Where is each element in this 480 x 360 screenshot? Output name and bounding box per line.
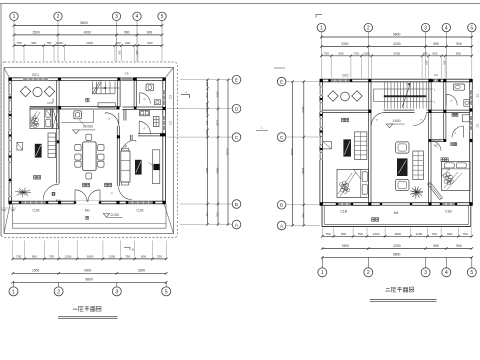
right column connector lines left plan [180,79,232,81]
door mark bedroom [52,192,55,195]
wall column squares left plan [9,78,12,81]
svg-text:-0.020: -0.020 [110,213,120,217]
svg-text:1200: 1200 [415,232,422,236]
axis bubble A right plan [277,221,286,230]
side table bedroom [17,142,23,150]
overall dim line left column right plan [292,82,294,226]
svg-text:950: 950 [124,30,130,34]
sink leader line [79,120,86,127]
svg-text:750: 750 [354,51,359,55]
svg-text:4800: 4800 [205,168,208,174]
right rooms wall H [431,138,446,140]
mark above E right plan [274,67,285,69]
svg-text:750: 750 [125,254,130,258]
dim row3 drop lines top-left [23,46,25,61]
dim line 9800 top-left plan [14,25,162,27]
svg-text:5: 5 [470,270,473,276]
svg-text:9800: 9800 [393,253,401,257]
room label dining [83,183,86,187]
bed scribble left bedroom [340,183,344,187]
axis bubble D left plan [232,104,241,113]
dim line 9800 top-right plan [321,36,471,38]
bottom extension lines right plan [321,228,323,237]
svg-text:750: 750 [325,232,330,236]
axis extension lines top-right plan [320,32,322,56]
axis bubble 5 bottom-left plan [165,282,167,287]
interior wall H3 lower bath bottom [138,133,163,135]
roof hip diagonal top-right [164,68,173,80]
window C3 top wall right plan [432,79,440,82]
outer wall right right plan [469,79,471,205]
svg-text:T: T [434,102,436,105]
bottom extension lines left plan [12,241,14,259]
outer wall right left plan [162,78,164,204]
svg-text:900: 900 [125,41,130,45]
svg-text:4800: 4800 [301,168,305,175]
svg-text:750: 750 [301,213,305,218]
svg-text:950: 950 [433,244,439,248]
axis bubble C left plan [232,133,241,142]
svg-text:900: 900 [341,232,346,236]
eave dashed outline left plan [1,62,177,238]
svg-text:900: 900 [31,41,36,45]
axis bubble 2 top-right plan [364,23,372,31]
interior wall V5 living/dining [116,126,118,186]
svg-text:1: 1 [320,25,323,31]
terrace tick label [86,216,89,219]
axis bubble 3 bottom-left plan [116,282,118,287]
interior wall V3 bath divider [133,80,135,107]
axis bubble 1 top-right plan [317,23,325,31]
svg-text:1: 1 [434,88,436,91]
axis bubble 4 bottom-right plan [445,257,447,268]
svg-text:1200: 1200 [363,51,370,55]
svg-text:900: 900 [32,254,37,258]
outer wall top left plan [9,77,166,79]
mark mid left [256,130,268,132]
svg-text:9100: 9100 [226,149,230,156]
svg-text:C: C [235,135,239,141]
svg-text:C3: C3 [125,72,129,76]
title first floor plan [73,308,78,310]
svg-text:1: 1 [13,14,16,20]
sheet frame top line [0,3,480,5]
svg-text:3: 3 [115,14,118,20]
svg-text:M1: M1 [85,209,90,213]
svg-text:950: 950 [433,42,439,46]
svg-text:1500: 1500 [32,269,40,273]
room label kitchen [86,98,89,102]
toilet upper bath [146,84,154,91]
balcony inner rail [323,205,325,224]
stairwell wall left [368,82,370,110]
door V1 bedroom [43,184,59,200]
window C3 top wall [121,78,133,81]
svg-text:1200: 1200 [64,254,71,258]
bed scribble right bedroom [443,174,447,178]
svg-text:S: S [107,117,111,120]
axis bubble 3 top-right plan [421,23,429,31]
door opening M1 bottom wall [75,201,101,204]
axis bubble 5 top-left plan [158,12,166,20]
svg-text:1800: 1800 [394,232,401,236]
hall door arc S1 [105,113,118,126]
svg-text:4: 4 [445,270,448,276]
svg-text:4200: 4200 [84,269,92,273]
axis bubble 2 bottom-left plan [58,282,60,287]
svg-text:1200: 1200 [108,254,115,258]
svg-text:600: 600 [205,110,208,115]
interior wall stub below bath [129,135,131,141]
bedroom right wall V [428,113,430,203]
window GC1 top wall [23,78,48,81]
svg-text:120: 120 [11,209,16,212]
window C2 right wall lower right plan [469,116,472,130]
segment dim line left column right plan [303,82,305,226]
entrance steps [13,223,167,225]
svg-text:9100: 9100 [290,149,294,156]
kitchen counter [62,122,94,124]
svg-text:2: 2 [57,14,60,20]
hall wall below stairs seg1 [323,109,372,111]
title underline second floor [370,299,437,301]
svg-text:2930: 2930 [393,51,400,55]
bottom dim row2 left plan [13,272,167,274]
svg-text:900: 900 [205,121,208,126]
corner chair 1 right plan [328,91,338,101]
svg-text:4800: 4800 [215,167,219,174]
svg-text:750: 750 [16,254,21,258]
interior squares right plan [368,110,371,113]
axis bubble 5 bottom-right plan [471,257,473,268]
washer lower bath [153,116,159,126]
window end squares bottom [19,201,21,203]
stairwell wall right [428,82,430,110]
room label closet [451,143,454,146]
bottom dim row3 right plan [322,256,472,258]
window C1A bottom-left [20,201,47,204]
svg-text:900: 900 [432,51,437,55]
svg-text:D: D [235,107,239,113]
svg-text:900: 900 [456,51,461,55]
svg-text:4: 4 [445,25,448,31]
svg-text:300: 300 [442,60,446,65]
svg-text:5: 5 [470,25,473,31]
outer wall left left plan [8,78,10,204]
svg-text:S: S [454,132,458,135]
svg-text:750: 750 [463,232,468,236]
axis bubble 5 top-right plan [468,23,476,31]
bath door arc right plan [446,94,457,105]
svg-text:C3: C3 [434,73,438,77]
door opening M4 bottom wall right plan [381,202,412,205]
svg-text:200: 200 [423,51,428,55]
svg-text:4200: 4200 [393,42,401,46]
window C2 right wall upper right plan [469,90,472,105]
svg-text:900: 900 [456,244,462,248]
staircase left plan [91,82,93,94]
tv cabinet living [152,150,159,184]
washbasin lower bath [139,111,149,116]
wall column squares right plan [320,79,323,82]
armchair 1 right plan [396,142,410,153]
axis bubble 2 bottom-right plan [367,257,369,268]
dim row3 drop lines right plan [330,56,332,78]
svg-text:900: 900 [147,41,152,45]
axis extension to plan right [320,56,322,78]
svg-text:120: 120 [2,209,7,212]
label balcony [372,218,375,222]
palm plant left plan [23,191,31,193]
interior wall V1 bedroom/dining [56,80,58,183]
svg-text:200: 200 [116,41,121,45]
svg-text:5: 5 [161,14,164,20]
svg-text:5: 5 [165,289,168,295]
room label study [452,113,455,116]
dim row2 top-right plan [321,45,471,47]
interior wall squares [58,106,61,109]
upper bath sink [154,100,160,105]
outer wall top right plan [320,78,472,80]
svg-text:450: 450 [205,82,208,87]
svg-text:300: 300 [425,60,429,65]
roof hip diagonal bottom-left [4,204,10,234]
roof hip diagonal bottom-right [164,204,173,234]
roof fascia outline left plan [4,68,174,234]
axis bubble E left plan [232,75,241,84]
dim row3 top-left plan [14,45,162,47]
svg-text:M4: M4 [394,211,399,215]
svg-text:1: 1 [12,289,15,295]
svg-text:750: 750 [205,212,208,217]
wardrobe beside bed [53,108,59,129]
svg-text:1200: 1200 [56,41,63,45]
svg-text:B: B [235,202,238,208]
svg-text:C1B: C1B [340,210,347,214]
corner mark [47,102,53,104]
svg-text:1200: 1200 [373,232,380,236]
svg-text:3.600: 3.600 [393,119,401,123]
axis bubble 4 top-right plan [442,23,450,31]
svg-text:E: E [280,79,283,85]
corner chair 2 right plan [352,91,362,101]
door living south [119,186,132,199]
counter rect [98,103,115,108]
armchair 2 right plan [396,179,410,190]
corner chair 1 [20,86,30,96]
axis bubble A left plan [232,220,241,229]
bottom dim row3 left plan [13,281,167,283]
window end squares right plan [336,203,338,205]
tv bedroom [35,144,42,158]
svg-text:750: 750 [324,51,329,55]
bed left plan [45,108,51,116]
axis bubble 3 top-left plan [112,12,120,20]
svg-text:750: 750 [16,41,21,45]
bedroom left wall V [368,113,370,203]
svg-text:4200: 4200 [84,30,92,34]
window GC1 top wall right plan [329,79,351,82]
hall wall below stairs seg2 [384,109,415,111]
right rooms wall V [443,82,445,141]
round table [33,87,42,96]
lower bath door arc [139,121,150,134]
window C1A bottom-right [127,201,154,204]
svg-text:450: 450 [205,131,208,136]
round table right plan [341,92,350,101]
bench right plan [413,151,424,180]
svg-text:GC1: GC1 [342,74,349,78]
balcony outline [321,205,323,226]
title underline first floor [58,316,117,318]
axis bubble 1 top-left plan [10,12,18,20]
tv left bedroom [343,139,351,156]
wardrobe diagonal right bedroom [428,184,440,200]
svg-text:3300: 3300 [342,244,350,248]
svg-text:750: 750 [432,232,437,236]
svg-text:S: S [449,100,453,103]
bottom dim row1 left plan [13,258,167,260]
dim row2 top-left plan [14,34,162,36]
svg-text:A: A [280,223,284,229]
table at left wall right plan [323,142,332,149]
sink unit [74,111,82,119]
svg-text:300: 300 [135,50,139,55]
svg-text:C: C [280,135,284,141]
bed right bedroom [442,169,451,177]
dresser left bedroom [355,132,367,160]
room label bedroom [34,176,37,180]
dining table [83,142,96,171]
svg-text:S: S [375,119,379,122]
svg-text:9800: 9800 [85,277,93,281]
svg-text:C1B: C1B [445,210,452,214]
section mark bottom [124,246,130,248]
interior wall V4 bath lobby [123,109,125,120]
palm plant right plan [416,191,423,193]
bath sink right plan [464,100,470,107]
tv stand bedroom [48,133,56,158]
svg-text:C2: C2 [168,95,172,99]
svg-text:750: 750 [357,232,362,236]
svg-text:750: 750 [46,41,51,45]
axis bubble 1 bottom-right plan [321,257,323,268]
svg-text:900: 900 [456,42,462,46]
svg-text:3300: 3300 [138,269,146,273]
window end squares top [132,78,134,80]
axis bubble C right plan [277,133,286,142]
toilet right plan [454,84,465,90]
svg-text:2: 2 [367,270,370,276]
coffee table right plan [397,158,408,176]
dining chairs [75,145,81,151]
svg-text:S: S [142,98,146,101]
window C2 right upper [163,90,166,105]
interior wall V2 stair hall right [117,80,119,107]
svg-text:3300: 3300 [341,42,349,46]
room label living [105,183,108,187]
axis extension lines to plan top-left [13,46,15,62]
svg-text:3: 3 [424,270,427,276]
window C2 right lower [163,116,166,130]
upper bath door arc [140,93,151,104]
bed left bedroom right plan [354,170,361,180]
svg-text:C1A: C1A [137,209,145,213]
sheet frame left line [0,4,2,237]
svg-text:2400: 2400 [215,91,219,98]
staircase right plan [384,82,386,109]
door into left room [371,113,384,126]
svg-text:2: 2 [57,289,60,295]
axis bubble B right plan [277,201,286,210]
svg-text:900: 900 [338,51,343,55]
dim row3 top-right plan [321,55,471,57]
coffee table living [135,160,142,175]
svg-text:S: S [110,192,114,195]
roof hip diagonal top-left [4,68,10,80]
hall wall below stairs seg3 [427,109,470,111]
interior wall H2 bath lobby [122,106,162,108]
svg-text:900: 900 [447,232,452,236]
svg-text:4: 4 [136,14,139,20]
svg-text:C2: C2 [476,94,480,98]
outer wall bottom left plan [9,200,166,202]
inner dim line right column [207,80,209,225]
windows C1A left wall (6 segments) [8,83,12,96]
sofa living [121,151,130,182]
axis bubble E right plan [277,77,286,86]
svg-text:S: S [142,127,146,130]
bedroom desk scribble [30,117,33,120]
svg-text:9800: 9800 [393,32,401,36]
door N2 [122,140,136,150]
svg-text:1: 1 [321,270,324,276]
svg-text:1500: 1500 [32,30,40,34]
svg-text:3: 3 [424,25,427,31]
bottom dim row1 right plan [322,235,472,237]
corner chair 2 [44,86,54,96]
svg-text:1500: 1500 [205,93,208,99]
closet desk [462,115,469,122]
outer wall left right plan [319,79,321,205]
svg-text:M2: M2 [434,143,438,147]
svg-text:B: B [132,248,134,252]
closet door arc right plan [452,126,464,138]
door into right room [413,113,426,126]
svg-text:900: 900 [147,30,153,34]
svg-text:750: 750 [157,254,162,258]
svg-text:300: 300 [117,50,121,55]
svg-text:2100: 2100 [215,120,219,127]
svg-text:4200: 4200 [393,244,401,248]
axis bubble 1 bottom-left plan [13,282,15,287]
windows left wall right plan (5 segments) [320,86,324,96]
section mark top right [316,14,322,16]
middle dim line right column [217,80,219,225]
svg-text:2: 2 [367,25,370,31]
section mark right of left plan [181,94,190,96]
svg-text:1: 1 [185,91,187,94]
svg-text:3: 3 [115,289,118,295]
svg-text:750: 750 [215,212,219,217]
axis bubble 2 top-left plan [54,12,62,20]
svg-text:S: S [420,118,424,121]
svg-text:GC1: GC1 [32,73,39,77]
axis bubble B left plan [232,200,241,209]
svg-text:900: 900 [141,254,146,258]
interior wall V1 lower stub [56,200,58,202]
svg-text:9800: 9800 [80,21,88,25]
